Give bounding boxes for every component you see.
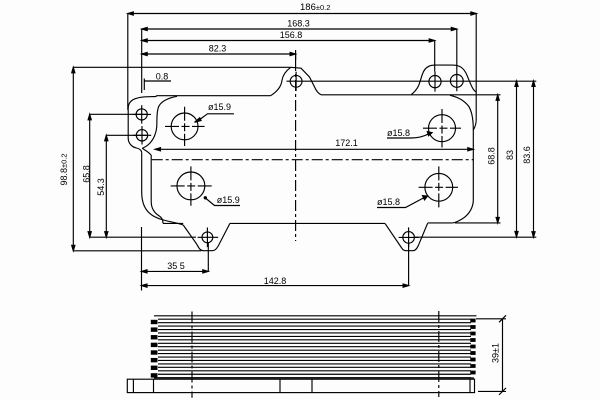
- svg-text:54.3: 54.3: [96, 178, 106, 196]
- big hole right-bottom: [425, 173, 453, 201]
- small hole twin ear B: [450, 75, 463, 88]
- svg-text:ø15.8: ø15.8: [377, 197, 400, 207]
- small hole left-1: [136, 109, 147, 120]
- svg-text:186±0.2: 186±0.2: [300, 2, 330, 13]
- inner top edge right of ear: [321, 94, 501, 96]
- svg-text:98.8±0.2: 98.8±0.2: [59, 153, 69, 185]
- svg-text:39±1: 39±1: [490, 343, 500, 363]
- big hole right-top: [429, 115, 456, 142]
- upper-left lobe: [128, 97, 150, 109]
- dim 83 line: [415, 81, 536, 237]
- small hole twin ear A: [429, 76, 441, 88]
- svg-text:ø15.9: ø15.9: [217, 195, 240, 205]
- dim 168.3 line: [142, 27, 457, 93]
- bottom left lobe: [183, 223, 230, 250]
- svg-text:65.8: 65.8: [81, 165, 91, 183]
- center ear: [291, 67, 321, 95]
- svg-text:142.8: 142.8: [264, 276, 287, 286]
- dim 82.3 line: [142, 52, 296, 60]
- small hole bottom-right lobe: [403, 232, 415, 244]
- svg-text:168.3: 168.3: [287, 19, 310, 29]
- dim 98.8±0.2 line: [72, 67, 201, 251]
- dim 39±1 line: [476, 315, 506, 395]
- svg-text:82.3: 82.3: [209, 44, 227, 54]
- svg-text:83: 83: [505, 150, 515, 160]
- big hole left-top: [171, 113, 198, 140]
- outer right edge: [473, 120, 476, 130]
- outer top edge left of center ear: [130, 66, 291, 68]
- dim 172.1 line: [155, 148, 473, 151]
- svg-text:68.8: 68.8: [486, 147, 496, 165]
- svg-text:172.1: 172.1: [335, 138, 358, 148]
- side view stack top plate: [154, 315, 477, 317]
- dim 65.8 line: [88, 114, 196, 237]
- svg-text:0.8: 0.8: [156, 71, 169, 81]
- big hole left-bottom: [177, 172, 205, 200]
- fin lines: [158, 319, 471, 377]
- base plate: [127, 379, 474, 392]
- inner left edge: [142, 148, 163, 223]
- dim 35.5 line: [142, 227, 209, 291]
- svg-text:ø15.9: ø15.9: [208, 102, 231, 112]
- twin ear: [411, 65, 476, 94]
- dim 142.8 line: [142, 243, 409, 287]
- svg-text:83.6: 83.6: [522, 146, 532, 164]
- svg-text:35 5: 35 5: [167, 261, 185, 271]
- bottom edge segments: [428, 222, 453, 224]
- dim 186±0.2 line: [128, 12, 477, 120]
- bottom right lobe: [385, 223, 428, 250]
- dim 156.8 line: [142, 39, 435, 72]
- leader 15.9 bottom: [206, 199, 240, 206]
- side view centerlines: [191, 312, 193, 398]
- small hole bottom-left lobe: [202, 232, 213, 243]
- inner top edge left: [150, 96, 271, 97]
- dim 83.6 line: [532, 81, 535, 237]
- dim 54.3 line: [105, 135, 148, 237]
- centerline horizontal: [152, 159, 474, 161]
- leader 15.8 bottom: [377, 198, 424, 208]
- dim 68.8 line: [455, 95, 501, 223]
- leader 15.9 top: [198, 114, 234, 121]
- small hole center ear: [290, 75, 302, 87]
- centerline vertical: [295, 50, 297, 60]
- small hole left-2: [136, 130, 147, 141]
- stack bottom edge: [154, 377, 474, 379]
- svg-text:156.8: 156.8: [280, 30, 303, 40]
- outer left edge + curve to lobe: [142, 153, 184, 225]
- leader 15.8 top: [387, 134, 429, 138]
- outer edge right of center ear / ear-holes centerline / 83 ext: [287, 80, 537, 82]
- dim 0.8 tick: [144, 79, 171, 91]
- fin teeth left: [151, 319, 476, 378]
- svg-text:ø15.8: ø15.8: [387, 128, 410, 138]
